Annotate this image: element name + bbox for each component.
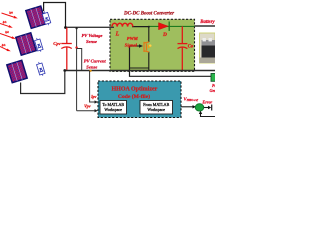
- bypass diode D2: [34, 37, 44, 53]
- svg-text:Battery: Battery: [199, 20, 215, 25]
- wire: gate arrow: [130, 45, 140, 47]
- solar panel PV2: [16, 33, 36, 55]
- svg-text:Error: Error: [201, 100, 212, 105]
- wire: second sense lead: [77, 49, 82, 71]
- wire: output rail to battery: [195, 25, 216, 27]
- block To MATLAB Workspace: [100, 101, 127, 115]
- block pulse generator (clipped): [211, 74, 216, 82]
- svg-text:PV Voltage: PV Voltage: [82, 33, 103, 38]
- wire: top rail into converter: [66, 26, 115, 28]
- DC-DC boost converter block (green dashed): [110, 19, 195, 71]
- svg-text:Pulse: Pulse: [212, 84, 215, 88]
- svg-text:Ipv: Ipv: [90, 94, 97, 99]
- wire: diode to output (dark green): [149, 25, 195, 27]
- irradiance arrow 1: [2, 13, 16, 18]
- bypass diode D1: [42, 11, 52, 27]
- node: sense probe (red): [75, 46, 77, 48]
- node: current sensor (orange): [89, 70, 91, 72]
- irradiance arrow 3: [0, 34, 13, 39]
- transistor Q1 (IGBT, orange): [148, 27, 150, 42]
- svg-text:Vpv: Vpv: [84, 104, 91, 109]
- irradiance arrow 4: [0, 47, 8, 51]
- wire: voltage sense down: [76, 28, 78, 110]
- svg-text:Gener: Gener: [210, 89, 215, 93]
- wire: panel1 top to top rail: [44, 3, 66, 28]
- svg-text:HHOA Optimizer: HHOA Optimizer: [111, 87, 157, 93]
- node: voltage sense tap: [76, 27, 78, 29]
- solar panel PV3: [7, 60, 27, 82]
- block From MATLAB Workspace: [140, 101, 173, 115]
- svg-text:DC-DC Boost Converter: DC-DC Boost Converter: [123, 11, 174, 16]
- wire: HHOA output to summing junction: [181, 106, 193, 108]
- svg-text:Sense: Sense: [86, 39, 97, 44]
- HHOA optimizer block (teal dashed): [98, 81, 181, 118]
- svg-text:Iph: Iph: [1, 44, 6, 47]
- wire: converter internal return: [130, 67, 149, 69]
- wire: PWM gate riser: [130, 46, 212, 76]
- svg-text:D: D: [162, 32, 167, 38]
- capacitor Co: [178, 26, 188, 70]
- irradiance arrow 2: [0, 24, 10, 27]
- bypass diode D3: [36, 61, 46, 77]
- wire: top rail inside converter (L to mosfet): [132, 26, 150, 28]
- svg-text:Sense: Sense: [86, 64, 97, 69]
- svg-text:PV Current: PV Current: [84, 59, 107, 64]
- solar panel PV1: [26, 6, 46, 28]
- node: bottom rail junction: [63, 69, 66, 72]
- diode D: [159, 23, 169, 30]
- svg-text:PWM: PWM: [127, 36, 139, 41]
- svg-text:Cpv: Cpv: [53, 41, 61, 46]
- wire: bottom rail: [65, 70, 215, 72]
- svg-text:Iph: Iph: [8, 12, 13, 15]
- svg-text:Workspace: Workspace: [104, 107, 122, 112]
- node: Cpv junction: [64, 26, 67, 29]
- inductor L: [112, 23, 133, 26]
- summing junction: [195, 104, 204, 111]
- battery photo: [200, 33, 216, 63]
- svg-text:Code (M-file): Code (M-file): [118, 93, 150, 100]
- svg-text:Iph: Iph: [4, 31, 9, 34]
- svg-text:Signal: Signal: [125, 42, 138, 47]
- wire: error output: [204, 107, 209, 109]
- wire: Ipv sense down: [90, 71, 95, 102]
- svg-text:Co: Co: [188, 45, 194, 50]
- wire: PV negative loop: [21, 71, 65, 94]
- svg-text:Iph: Iph: [2, 21, 7, 24]
- svg-text:L: L: [115, 32, 120, 38]
- svg-text:Workspace: Workspace: [147, 107, 165, 112]
- port: PWM block input: [211, 105, 213, 111]
- wire: feedback from battery: [201, 114, 216, 117]
- wire: Vpv arrow into HHOA: [77, 110, 95, 112]
- capacitor Cpv: [61, 28, 72, 71]
